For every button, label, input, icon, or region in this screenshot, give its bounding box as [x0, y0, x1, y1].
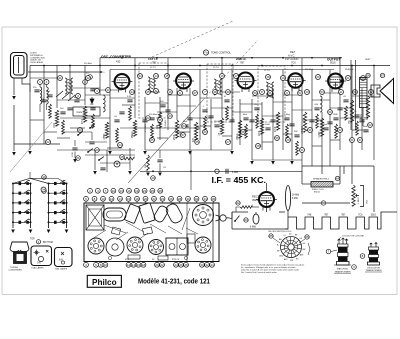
ground switch S1 b — [29, 230, 33, 234]
callout 5 — [88, 75, 93, 80]
svg-text:MATCHING: MATCHING — [337, 268, 348, 271]
svg-text:65: 65 — [269, 234, 273, 238]
callout leader b — [104, 261, 106, 264]
resistor R42 — [316, 114, 319, 128]
resistor R30 — [49, 104, 52, 118]
wire vertical bus 16 — [221, 58, 223, 118]
callout top2 16 — [211, 196, 216, 201]
dial cord line 4 — [10, 122, 52, 172]
callout leader b — [95, 261, 97, 264]
wire vertical bus 5 — [84, 66, 86, 106]
svg-text:32: 32 — [205, 263, 209, 267]
filter capacitor can C21 — [285, 186, 299, 218]
capacitor C39 — [183, 125, 188, 127]
switch S1 contact row 5 — [12, 219, 32, 224]
output transformer OT1 — [360, 78, 368, 108]
resistor R39 — [256, 114, 259, 128]
wire c55 top — [159, 150, 161, 158]
wire drive h2 — [100, 162, 130, 164]
callout bottom 2 — [94, 262, 99, 267]
volume control bracket — [360, 186, 364, 207]
tube V6 35Z3 rectifier — [256, 192, 277, 211]
svg-text:50L6: 50L6 — [330, 62, 336, 65]
callout leader b — [175, 261, 177, 264]
callout leader t — [187, 201, 189, 203]
tube V2 7B7 1st IF — [173, 74, 194, 92]
junction — [189, 57, 191, 59]
junction — [261, 65, 263, 67]
callout leader t — [111, 201, 113, 203]
svg-text:.1: .1 — [202, 106, 205, 108]
svg-text:Modèle 41-231, code 121: Modèle 41-231, code 121 — [138, 278, 210, 285]
callout 19 — [281, 76, 286, 81]
callout 62 — [368, 123, 373, 128]
callout top1 10 — [158, 188, 163, 193]
dial pulley — [114, 161, 120, 167]
wire c55 bot — [159, 164, 161, 173]
ground switch S1 — [11, 230, 15, 234]
capacitor C44 — [254, 108, 259, 110]
callout leader t — [128, 201, 130, 203]
antenna coil L1b — [47, 87, 49, 104]
resistor R35 — [151, 124, 154, 138]
wire link 9 — [145, 91, 160, 93]
resistor R8 — [220, 118, 223, 134]
junction — [99, 65, 101, 67]
switch S3 blade — [234, 216, 239, 222]
svg-text:11: 11 — [339, 90, 342, 94]
callout 24 — [182, 124, 187, 129]
callout bottom 5 — [126, 262, 131, 267]
IF transformer T2 — [148, 77, 156, 93]
junction — [231, 65, 233, 67]
ground drive 2 — [128, 171, 132, 175]
callout 24 — [118, 143, 123, 148]
ground — [250, 161, 254, 165]
chassis power socket — [193, 205, 214, 226]
wire vertical bus 10 — [159, 97, 161, 140]
junction — [221, 57, 223, 59]
capacitor C47 — [294, 135, 299, 137]
svg-text:14: 14 — [132, 263, 136, 267]
wire link 44 — [312, 145, 322, 147]
wire ladder apex 1 — [13, 178, 30, 183]
ground antenna — [12, 96, 16, 100]
ground r47 — [146, 173, 150, 177]
svg-text:62: 62 — [368, 123, 372, 127]
svg-text:24: 24 — [182, 124, 186, 128]
wire long mid bus — [140, 170, 302, 172]
callout 5 — [154, 89, 159, 94]
wire vertical bus 23 — [291, 88, 293, 160]
svg-text:13: 13 — [120, 189, 124, 193]
wire link 27 — [330, 107, 352, 109]
svg-text:22: 22 — [46, 140, 50, 144]
wire mid bus e — [60, 117, 110, 119]
svg-text:TOP: TOP — [30, 238, 35, 240]
svg-text:A.V.C.: A.V.C. — [288, 54, 296, 58]
callout leader b — [201, 261, 203, 264]
wire vertical bus 6 — [99, 58, 101, 95]
svg-text:1 Meg: 1 Meg — [284, 114, 291, 116]
capacitor C48 — [314, 108, 319, 110]
wire link 14 — [200, 97, 222, 99]
dial lamp panel B — [55, 248, 73, 267]
callout bottom 15 — [205, 262, 210, 267]
svg-text:47: 47 — [224, 96, 227, 98]
junction — [351, 65, 353, 67]
wire L1b bot — [46, 104, 48, 110]
callout 3 — [76, 94, 81, 99]
svg-text:180K: 180K — [333, 114, 338, 116]
svg-text:.05: .05 — [163, 167, 167, 169]
callout leader b — [206, 261, 208, 264]
callout 65 — [269, 234, 273, 238]
capacitor C50 — [333, 118, 338, 120]
callout top2 12 — [177, 196, 182, 201]
callout 45 — [146, 90, 151, 95]
callout 20 — [95, 148, 100, 153]
callout leader b — [211, 261, 213, 264]
svg-text:AVC: AVC — [284, 258, 288, 261]
svg-text:64: 64 — [336, 177, 340, 181]
wire L1a top — [39, 85, 41, 88]
callout leader t — [213, 201, 215, 203]
resistor R13 — [320, 118, 323, 136]
callout 50 — [253, 91, 258, 96]
wire antenna row — [28, 71, 101, 73]
svg-text:3-6: 3-6 — [37, 261, 41, 265]
svg-text:66: 66 — [305, 235, 309, 239]
capacitor C32 — [60, 112, 65, 114]
svg-text:18 Mfd: 18 Mfd — [292, 195, 300, 197]
svg-text:22: 22 — [152, 197, 156, 201]
wire antenna lead — [13, 78, 15, 95]
wire link 42 — [262, 141, 273, 143]
svg-text:wafer No. 2 switch B of C poin: wafer No. 2 switch B of C point of switc… — [241, 269, 299, 272]
callout 4 — [95, 89, 100, 94]
svg-text:Mmf: Mmf — [183, 121, 187, 123]
junction mid bus — [152, 170, 154, 172]
svg-text:24: 24 — [174, 263, 178, 267]
callout 66 — [305, 235, 309, 239]
wire link 22 — [283, 94, 302, 96]
callout 61 — [350, 138, 355, 143]
chassis filter can — [164, 202, 184, 224]
callout leader b — [156, 261, 158, 264]
callout 11 — [339, 90, 344, 95]
switch contact d — [89, 124, 95, 129]
resistor R20 33ohm — [240, 206, 252, 209]
wire link 16 — [222, 91, 240, 93]
junction — [282, 57, 284, 59]
callout 25 — [195, 140, 200, 145]
wire vertical bus 31 — [373, 66, 375, 161]
svg-text:23: 23 — [168, 114, 172, 118]
resistor R32 — [92, 114, 95, 128]
svg-text:61: 61 — [350, 138, 354, 142]
callout 16 — [42, 175, 47, 180]
callout 1 — [38, 80, 43, 85]
callout bottom 7 — [136, 262, 141, 267]
page border frame — [2, 27, 397, 295]
svg-text:Screw adjust. means tuned adju: Screw adjust. means tuned adjustment; ar… — [241, 263, 305, 266]
down arrow ground 92 — [90, 97, 94, 104]
svg-text:4 Mfd: 4 Mfd — [232, 171, 239, 174]
resistor R1 — [55, 110, 58, 126]
svg-text:B+: B+ — [277, 245, 280, 247]
shield box IF shield 2 — [207, 64, 233, 122]
wire link 4 — [85, 94, 110, 96]
wire link 40 — [222, 135, 232, 137]
wire link 1 — [30, 77, 57, 79]
wire link 6 — [110, 97, 135, 99]
callout leader t — [196, 201, 198, 203]
dial cord line 3 — [152, 21, 233, 57]
junction — [251, 57, 253, 59]
wire link 13 — [190, 117, 211, 119]
capacitor C8 — [208, 116, 213, 118]
callout 41 — [58, 76, 63, 81]
svg-text:52: 52 — [298, 91, 302, 95]
svg-text:67: 67 — [381, 74, 385, 78]
wire vertical bus 28 — [339, 58, 341, 150]
resistor R37 — [226, 106, 229, 120]
wire link 23 — [292, 109, 312, 111]
chassis IF can B — [139, 203, 156, 224]
svg-text:23: 23 — [78, 128, 82, 132]
callout top2 15 — [203, 196, 208, 201]
capacitor C42 — [224, 100, 229, 102]
wire link 34 — [70, 127, 85, 129]
callout 17 — [42, 189, 47, 194]
chassis tube socket D — [195, 237, 211, 253]
svg-text:32: 32 — [338, 128, 342, 132]
wire L1b top — [46, 85, 48, 88]
svg-text:250 Mmf: 250 Mmf — [149, 114, 158, 116]
svg-text:12: 12 — [110, 197, 114, 201]
resistor R31 — [62, 120, 65, 134]
capacitor C56 — [72, 148, 77, 150]
svg-text:250 Mmf: 250 Mmf — [214, 121, 223, 123]
callout top1 3 — [103, 188, 108, 193]
wire link 21 — [273, 101, 292, 103]
svg-text:.05MF: .05MF — [104, 133, 106, 140]
svg-text:36: 36 — [212, 197, 216, 201]
speaker frame — [371, 85, 380, 97]
wire c56 top — [74, 140, 76, 146]
callout bottom 1 — [84, 262, 89, 267]
callout bottom 9 — [155, 262, 160, 267]
tie point — [340, 79, 344, 88]
wire vertical bus 15 — [210, 99, 212, 150]
svg-text:59: 59 — [275, 136, 279, 140]
svg-text:BLEU: BLEU — [361, 113, 363, 119]
junction — [291, 65, 293, 67]
svg-text:22: 22 — [160, 263, 164, 267]
callout top2 3 — [101, 196, 106, 201]
svg-text:PK: PK — [152, 259, 155, 261]
ground — [271, 161, 275, 165]
svg-text:DIAL LAMPS: DIAL LAMPS — [32, 266, 45, 269]
capacitor C45 — [265, 128, 270, 130]
svg-text:100K: 100K — [265, 124, 270, 126]
wire c57 top — [91, 132, 93, 140]
callout leader t — [145, 201, 147, 203]
svg-text:No. 2 switch B of C point of s: No. 2 switch B of C point of switch wafe… — [241, 271, 277, 274]
callout leader t — [94, 201, 96, 203]
matching transformer figure — [334, 238, 351, 265]
wire link 12 — [177, 105, 196, 107]
svg-text:26: 26 — [203, 130, 207, 134]
svg-text:28: 28 — [184, 263, 188, 267]
svg-text:28: 28 — [178, 197, 182, 201]
resistor R15 — [366, 96, 369, 118]
junction — [43, 65, 45, 67]
svg-text:33K: 33K — [145, 164, 147, 168]
callout 8 — [260, 90, 265, 95]
wire link 39 — [200, 125, 211, 127]
capacitor C52 — [354, 115, 359, 117]
svg-text:56: 56 — [158, 118, 162, 122]
callout 23 — [168, 114, 173, 119]
wire r20 left — [236, 207, 240, 212]
callout top2 8 — [143, 196, 148, 201]
switch S2 contact row 1 — [48, 180, 68, 185]
chassis layout outline — [84, 203, 219, 262]
wire vertical bus 30 — [361, 88, 363, 150]
svg-text:46: 46 — [168, 90, 172, 94]
svg-text:12.T.2: 12.T.2 — [150, 67, 157, 69]
callout 60 — [328, 110, 333, 115]
ground — [143, 151, 147, 155]
callout 33 — [358, 138, 363, 143]
chassis tube socket B — [127, 237, 143, 253]
wire link 7 — [122, 104, 135, 106]
svg-text:VERT: VERT — [365, 59, 371, 61]
ground switch S2 — [47, 230, 51, 234]
callout 21 — [76, 156, 81, 161]
resistor R46 — [120, 157, 134, 160]
callout leader t — [170, 201, 172, 203]
callout 20 — [316, 75, 321, 80]
wire top bus 3 — [110, 69, 334, 71]
dial lamp panel A — [31, 246, 52, 266]
callout leader b — [180, 261, 182, 264]
callout leader b — [161, 261, 163, 264]
band switch contacts top — [56, 91, 75, 101]
callout top2 5 — [118, 196, 123, 201]
wafer leader lines — [273, 238, 310, 255]
switch contact b — [98, 157, 104, 161]
svg-text:SW: SW — [290, 260, 293, 262]
capacitor C49 — [323, 128, 328, 130]
svg-text:VOL: VOL — [367, 199, 369, 204]
chassis angled braces — [92, 208, 198, 240]
callout 67 — [380, 73, 384, 77]
svg-text:Mmf: Mmf — [74, 97, 78, 99]
callout top1 2 — [95, 188, 100, 193]
svg-text:25: 25 — [150, 138, 154, 142]
wire drive h1 — [85, 154, 135, 156]
callout bottom 16 — [210, 262, 215, 267]
callout 19 — [151, 176, 156, 181]
svg-text:1MEG: 1MEG — [237, 133, 239, 140]
capacitor C4 — [119, 112, 124, 114]
wire vertical bus 20 — [261, 102, 263, 150]
callout 63 — [244, 218, 248, 222]
callout bottom 10 — [160, 262, 165, 267]
svg-text:30: 30 — [308, 128, 312, 132]
callout top2 14 — [194, 196, 199, 201]
wire vertical bus 29 — [351, 66, 353, 167]
callout top2 4 — [109, 196, 114, 201]
svg-text:44: 44 — [130, 90, 134, 94]
capacitor C10 — [249, 120, 254, 122]
svg-text:54: 54 — [353, 90, 357, 94]
capacitor C43 — [243, 118, 248, 120]
callout 55 — [361, 76, 366, 81]
wire link 45 — [330, 139, 340, 141]
wire mid bus c — [252, 159, 302, 161]
switch contact c — [77, 131, 83, 136]
wire link 43 — [283, 133, 292, 135]
svg-text:7B7: 7B7 — [341, 215, 346, 217]
svg-text:49: 49 — [226, 90, 230, 94]
oscillator transformer figure — [368, 243, 380, 266]
wire link 5 — [100, 89, 122, 91]
svg-text:25: 25 — [151, 189, 155, 193]
wire link 35 — [85, 141, 107, 143]
svg-text:4.7 MEG: 4.7 MEG — [145, 123, 147, 132]
wire drive v2 — [106, 150, 108, 172]
svg-text:10: 10 — [305, 90, 309, 94]
callout 23 — [78, 128, 83, 133]
wire field coil right — [333, 183, 340, 185]
callout leader t — [179, 201, 181, 203]
switch S1 contact row 3 — [12, 200, 32, 205]
ground — [28, 151, 32, 155]
callout leader b — [100, 261, 102, 264]
svg-text:28: 28 — [256, 144, 260, 148]
wire vertical bus 7 — [109, 70, 111, 151]
svg-text:1000: 1000 — [54, 122, 56, 128]
band switch wafer S2 rear view — [277, 234, 307, 262]
callout leader b — [138, 261, 140, 264]
callout bottom 3 — [98, 262, 103, 267]
underline oscillator — [365, 271, 382, 273]
antenna coil L1a — [40, 87, 42, 104]
wire ladder apex 3 — [30, 178, 67, 183]
svg-text:Mmf: Mmf — [363, 126, 367, 128]
wire link 32 — [44, 131, 57, 133]
band switch S2 wafer section — [49, 184, 67, 229]
chassis tube socket A — [88, 238, 104, 254]
resistor R44 — [345, 106, 348, 120]
power wiring loop — [232, 207, 288, 229]
callout bottom 6 — [131, 262, 136, 267]
svg-text:PLAQUE: PLAQUE — [345, 68, 354, 71]
capacitor C53 — [363, 130, 368, 132]
ground c56 — [73, 159, 77, 163]
svg-text:850 Ω: 850 Ω — [314, 191, 320, 193]
chassis vertical divider — [186, 203, 188, 262]
callout 66 — [366, 73, 370, 77]
ground switch S2 b — [65, 230, 69, 234]
svg-text:TONE CONTROL: TONE CONTROL — [211, 52, 231, 55]
speaker SP1 cone — [380, 79, 394, 104]
chassis antenna transformer block — [86, 205, 104, 230]
